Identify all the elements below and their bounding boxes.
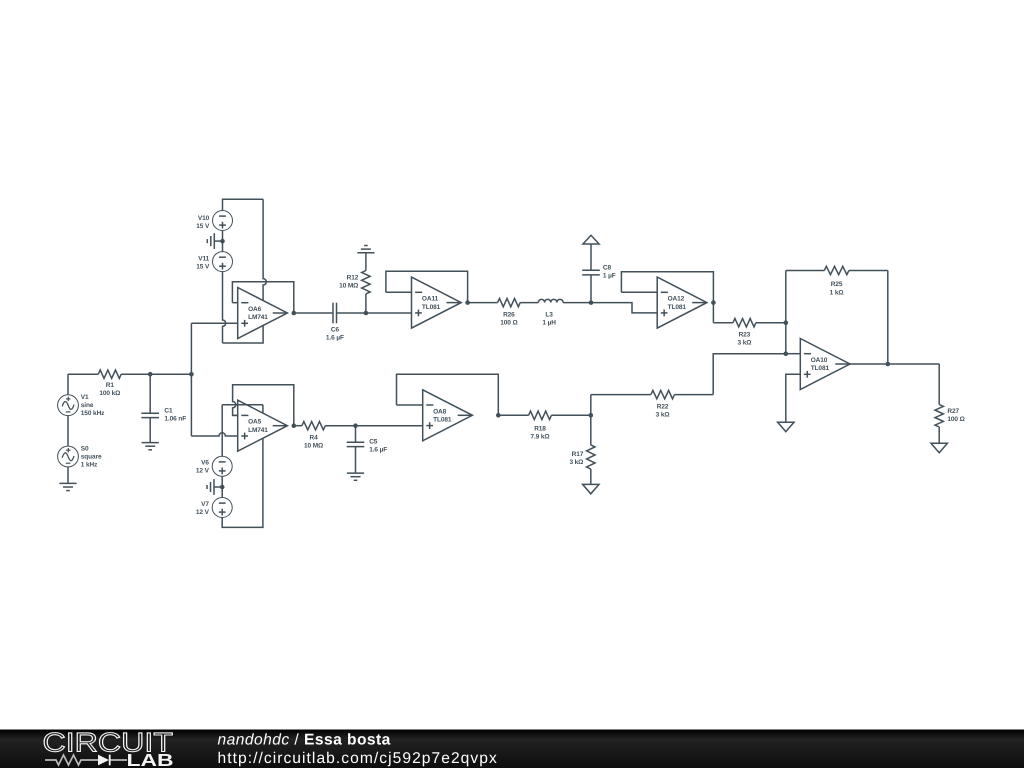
svg-text:1 kΩ: 1 kΩ	[830, 289, 844, 296]
wire L3 to node D	[563, 302, 591, 304]
junction V10/V11 ground tap	[220, 239, 225, 244]
wire OA11 - input stub	[386, 291, 412, 293]
junction node E (R23/R25)	[784, 320, 789, 325]
svg-text:R4: R4	[310, 435, 319, 442]
svg-text:3 kΩ: 3 kΩ	[656, 412, 670, 419]
op-amp OA11 TL081	[412, 277, 462, 328]
wire supply rail to OA6 V+ pin (hops feedback)	[263, 199, 266, 300]
svg-text:nandohdc / Essa bosta: nandohdc / Essa bosta	[218, 731, 391, 748]
svg-text:1 µH: 1 µH	[542, 320, 556, 327]
wire C6 to node C	[337, 312, 366, 314]
svg-text:10 MΩ: 10 MΩ	[304, 443, 323, 450]
wire node C to OA11 + input	[366, 312, 412, 314]
svg-text:OA11: OA11	[422, 296, 439, 303]
junction node A (R1/C1)	[148, 372, 153, 377]
svg-text:V1: V1	[81, 394, 89, 401]
junction node F (R22/R23 sum)	[784, 351, 789, 356]
svg-text:100 Ω: 100 Ω	[947, 416, 964, 423]
svg-text:R26: R26	[503, 311, 515, 318]
wire node H up	[590, 395, 592, 416]
op-amp OA5 LM741	[238, 400, 288, 451]
op-amp OA8 TL081	[423, 390, 473, 441]
wire V1 to R1	[67, 374, 69, 395]
junction OA10 output	[886, 362, 891, 367]
svg-text:C5: C5	[369, 439, 378, 446]
svg-text:R12: R12	[347, 274, 359, 281]
svg-text:15 V: 15 V	[196, 223, 210, 230]
resistor R23	[713, 319, 785, 347]
svg-text:R17: R17	[572, 451, 584, 458]
ground above R12	[357, 246, 374, 253]
svg-text:1.06 nF: 1.06 nF	[164, 415, 186, 422]
wire C5 to ground	[355, 447, 357, 474]
junction node D (L3/C8/OA12+)	[589, 300, 594, 305]
svg-text:R18: R18	[534, 425, 546, 432]
svg-text:OA6: OA6	[248, 306, 262, 313]
op-amp OA12 TL081	[657, 277, 707, 328]
wire OA5 V+ rail	[222, 404, 263, 406]
wire C1 to ground	[149, 418, 151, 443]
wire R25 to OA10 output	[887, 271, 889, 365]
svg-text:15 V: 15 V	[196, 264, 210, 271]
svg-text:3 kΩ: 3 kΩ	[737, 340, 751, 347]
CircuitLab logo: LAB	[127, 750, 174, 768]
svg-text:square: square	[81, 453, 102, 460]
analog ground at OA10 + input	[778, 422, 794, 431]
svg-text:http://circuitlab.com/cj592p7e: http://circuitlab.com/cj592p7e2qvpx	[218, 750, 498, 767]
svg-text:C1: C1	[164, 407, 173, 414]
svg-text:7.9 kΩ: 7.9 kΩ	[530, 433, 549, 440]
svg-text:OA8: OA8	[433, 408, 447, 415]
svg-text:C8: C8	[603, 264, 612, 271]
voltage source V6 12 V	[196, 456, 232, 476]
wire V1 to S0	[67, 416, 69, 447]
wire node D to C8	[590, 275, 592, 303]
wire OA12 output down	[712, 303, 714, 323]
wire node D to OA12 + input	[591, 303, 657, 313]
wire OA12 feedback loop	[621, 272, 713, 303]
svg-text:V10: V10	[198, 215, 210, 222]
svg-text:R22: R22	[657, 403, 669, 410]
resistor R1	[68, 370, 150, 397]
resistor R26	[468, 298, 539, 326]
inductor L3	[538, 299, 563, 326]
junction node C (C6/R12/OA11+)	[364, 311, 369, 316]
wire S0 to ground	[67, 467, 69, 484]
wire node E down to OA10 - input	[785, 323, 787, 354]
resistor R22	[591, 390, 713, 418]
resistor R18	[498, 411, 591, 440]
svg-text:OA5: OA5	[248, 419, 262, 426]
junction V6/V7 ground tap	[220, 485, 225, 490]
op-amp OA10 TL081	[800, 339, 850, 390]
svg-text:R1: R1	[106, 382, 115, 389]
svg-text:100 Ω: 100 Ω	[500, 320, 517, 327]
svg-text:V11: V11	[198, 256, 209, 263]
svg-text:LM741: LM741	[248, 427, 268, 434]
CircuitLab logo: CIRCUIT	[43, 728, 174, 758]
power arrow above C8	[583, 235, 599, 244]
svg-text:V7: V7	[201, 501, 209, 508]
footer credit line	[218, 731, 391, 748]
svg-text:TL081: TL081	[811, 365, 830, 372]
ground at V6/V7 midpoint	[207, 479, 222, 495]
wire R1 to node A	[121, 373, 150, 375]
svg-text:LM741: LM741	[248, 314, 268, 321]
CircuitLab logo: resistor-diode glyph	[45, 755, 127, 766]
wire node A to C1	[149, 374, 151, 413]
wire V10 minus to V11 plus	[222, 231, 224, 252]
capacitor C6	[326, 303, 344, 342]
wire OA6 V- rail	[223, 326, 264, 344]
wire OA10 + input to ground	[786, 374, 801, 422]
wire node B up to OA6 + input	[190, 323, 192, 374]
junction OA11 output	[465, 300, 470, 305]
wire node G to C5	[355, 426, 357, 443]
voltage source V10 15 V	[196, 211, 232, 231]
wire OA10 output to R27	[850, 363, 939, 365]
wire OA6 - input stub	[232, 302, 237, 304]
wire V7 bottom to OA5 V- rail	[222, 438, 263, 527]
svg-text:12 V: 12 V	[196, 468, 210, 475]
junction OA8 output	[496, 413, 501, 418]
svg-text:12 V: 12 V	[196, 509, 210, 516]
wire to OA5 + input (hops V6 wire)	[191, 433, 237, 436]
svg-text:S0: S0	[81, 445, 89, 452]
svg-text:TL081: TL081	[668, 304, 687, 311]
svg-text:1.6 µF: 1.6 µF	[369, 447, 387, 454]
wire OA5 V+ pin	[262, 405, 264, 413]
capacitor C1	[141, 407, 186, 422]
svg-text:1 kHz: 1 kHz	[81, 462, 98, 469]
svg-text:R23: R23	[739, 332, 751, 339]
op-amp OA6 LM741	[238, 288, 288, 339]
wire OA5 - input stub	[233, 414, 238, 416]
ground below C5	[347, 473, 364, 480]
svg-text:LAB: LAB	[127, 750, 174, 768]
wire node A to node B	[150, 373, 191, 375]
svg-text:3 kΩ: 3 kΩ	[569, 459, 583, 466]
voltage source S0 square	[58, 445, 102, 468]
junction node H (R18/R17/R22)	[589, 413, 594, 418]
resistor R4	[294, 422, 356, 450]
junction OA6 output	[292, 311, 297, 316]
svg-text:OA10: OA10	[811, 357, 828, 364]
ground at V10/V11 midpoint	[207, 233, 222, 249]
svg-text:TL081: TL081	[422, 304, 441, 311]
footer bar	[0, 730, 1024, 768]
wire node E up to R25	[785, 271, 787, 323]
footer url line	[218, 750, 498, 767]
svg-text:150 kHz: 150 kHz	[81, 410, 105, 417]
wire node B down	[190, 374, 192, 436]
junction node B (input net)	[189, 372, 194, 377]
wire V6 minus to V7 plus	[221, 476, 223, 497]
capacitor C8	[582, 264, 616, 279]
svg-text:sine: sine	[81, 402, 94, 409]
wire node F to OA10 - input	[786, 353, 801, 355]
wire node G to OA8 + input	[356, 425, 423, 427]
voltage source V11 15 V	[196, 252, 232, 272]
svg-text:V6: V6	[201, 460, 209, 467]
wire OA8 - input stub	[397, 404, 423, 406]
wire OA12 - input stub	[621, 291, 657, 293]
voltage source V1 sine	[58, 394, 106, 417]
svg-text:TL081: TL081	[433, 417, 452, 424]
svg-text:R25: R25	[831, 281, 843, 288]
svg-text:1 µF: 1 µF	[603, 272, 616, 279]
wire OA6 output to C6	[294, 312, 333, 314]
wire V6 top to OA5 V+ rail	[221, 405, 223, 457]
wire OA5 feedback loop (hops V+ rail)	[233, 385, 294, 426]
resistor R27	[935, 364, 965, 443]
ground below S0	[59, 483, 76, 490]
svg-text:OA12: OA12	[668, 296, 685, 303]
wire OA8 feedback loop	[397, 374, 499, 415]
voltage source V7 12 V	[196, 498, 232, 518]
resistor R17	[569, 415, 595, 484]
junction OA12 output	[711, 300, 716, 305]
svg-text:L3: L3	[545, 311, 553, 318]
wire R22 up to node F	[713, 354, 786, 395]
junction node G (R4/C5/OA8+)	[353, 423, 358, 428]
ground below C1	[142, 443, 159, 450]
analog ground below R17	[583, 484, 599, 493]
junction OA5 output	[292, 423, 297, 428]
svg-text:C6: C6	[331, 327, 340, 334]
wire OA6 feedback loop	[232, 282, 293, 313]
resistor R25	[786, 266, 888, 296]
wire to OA6 + input	[191, 322, 237, 324]
capacitor C5	[347, 439, 388, 454]
svg-text:1.6 µF: 1.6 µF	[326, 335, 344, 342]
svg-text:10 MΩ: 10 MΩ	[339, 282, 358, 289]
wire V10 top to supply rail	[223, 199, 264, 210]
analog ground below R27	[931, 443, 947, 452]
wire OA11 feedback loop	[386, 271, 468, 302]
svg-text:100 kΩ: 100 kΩ	[99, 390, 120, 397]
resistor R12	[339, 253, 370, 313]
wire C8 to power arrow	[590, 244, 592, 270]
svg-text:R27: R27	[947, 408, 959, 415]
wire V11 bottom to OA6 V- rail (hops + input wire)	[223, 272, 226, 343]
